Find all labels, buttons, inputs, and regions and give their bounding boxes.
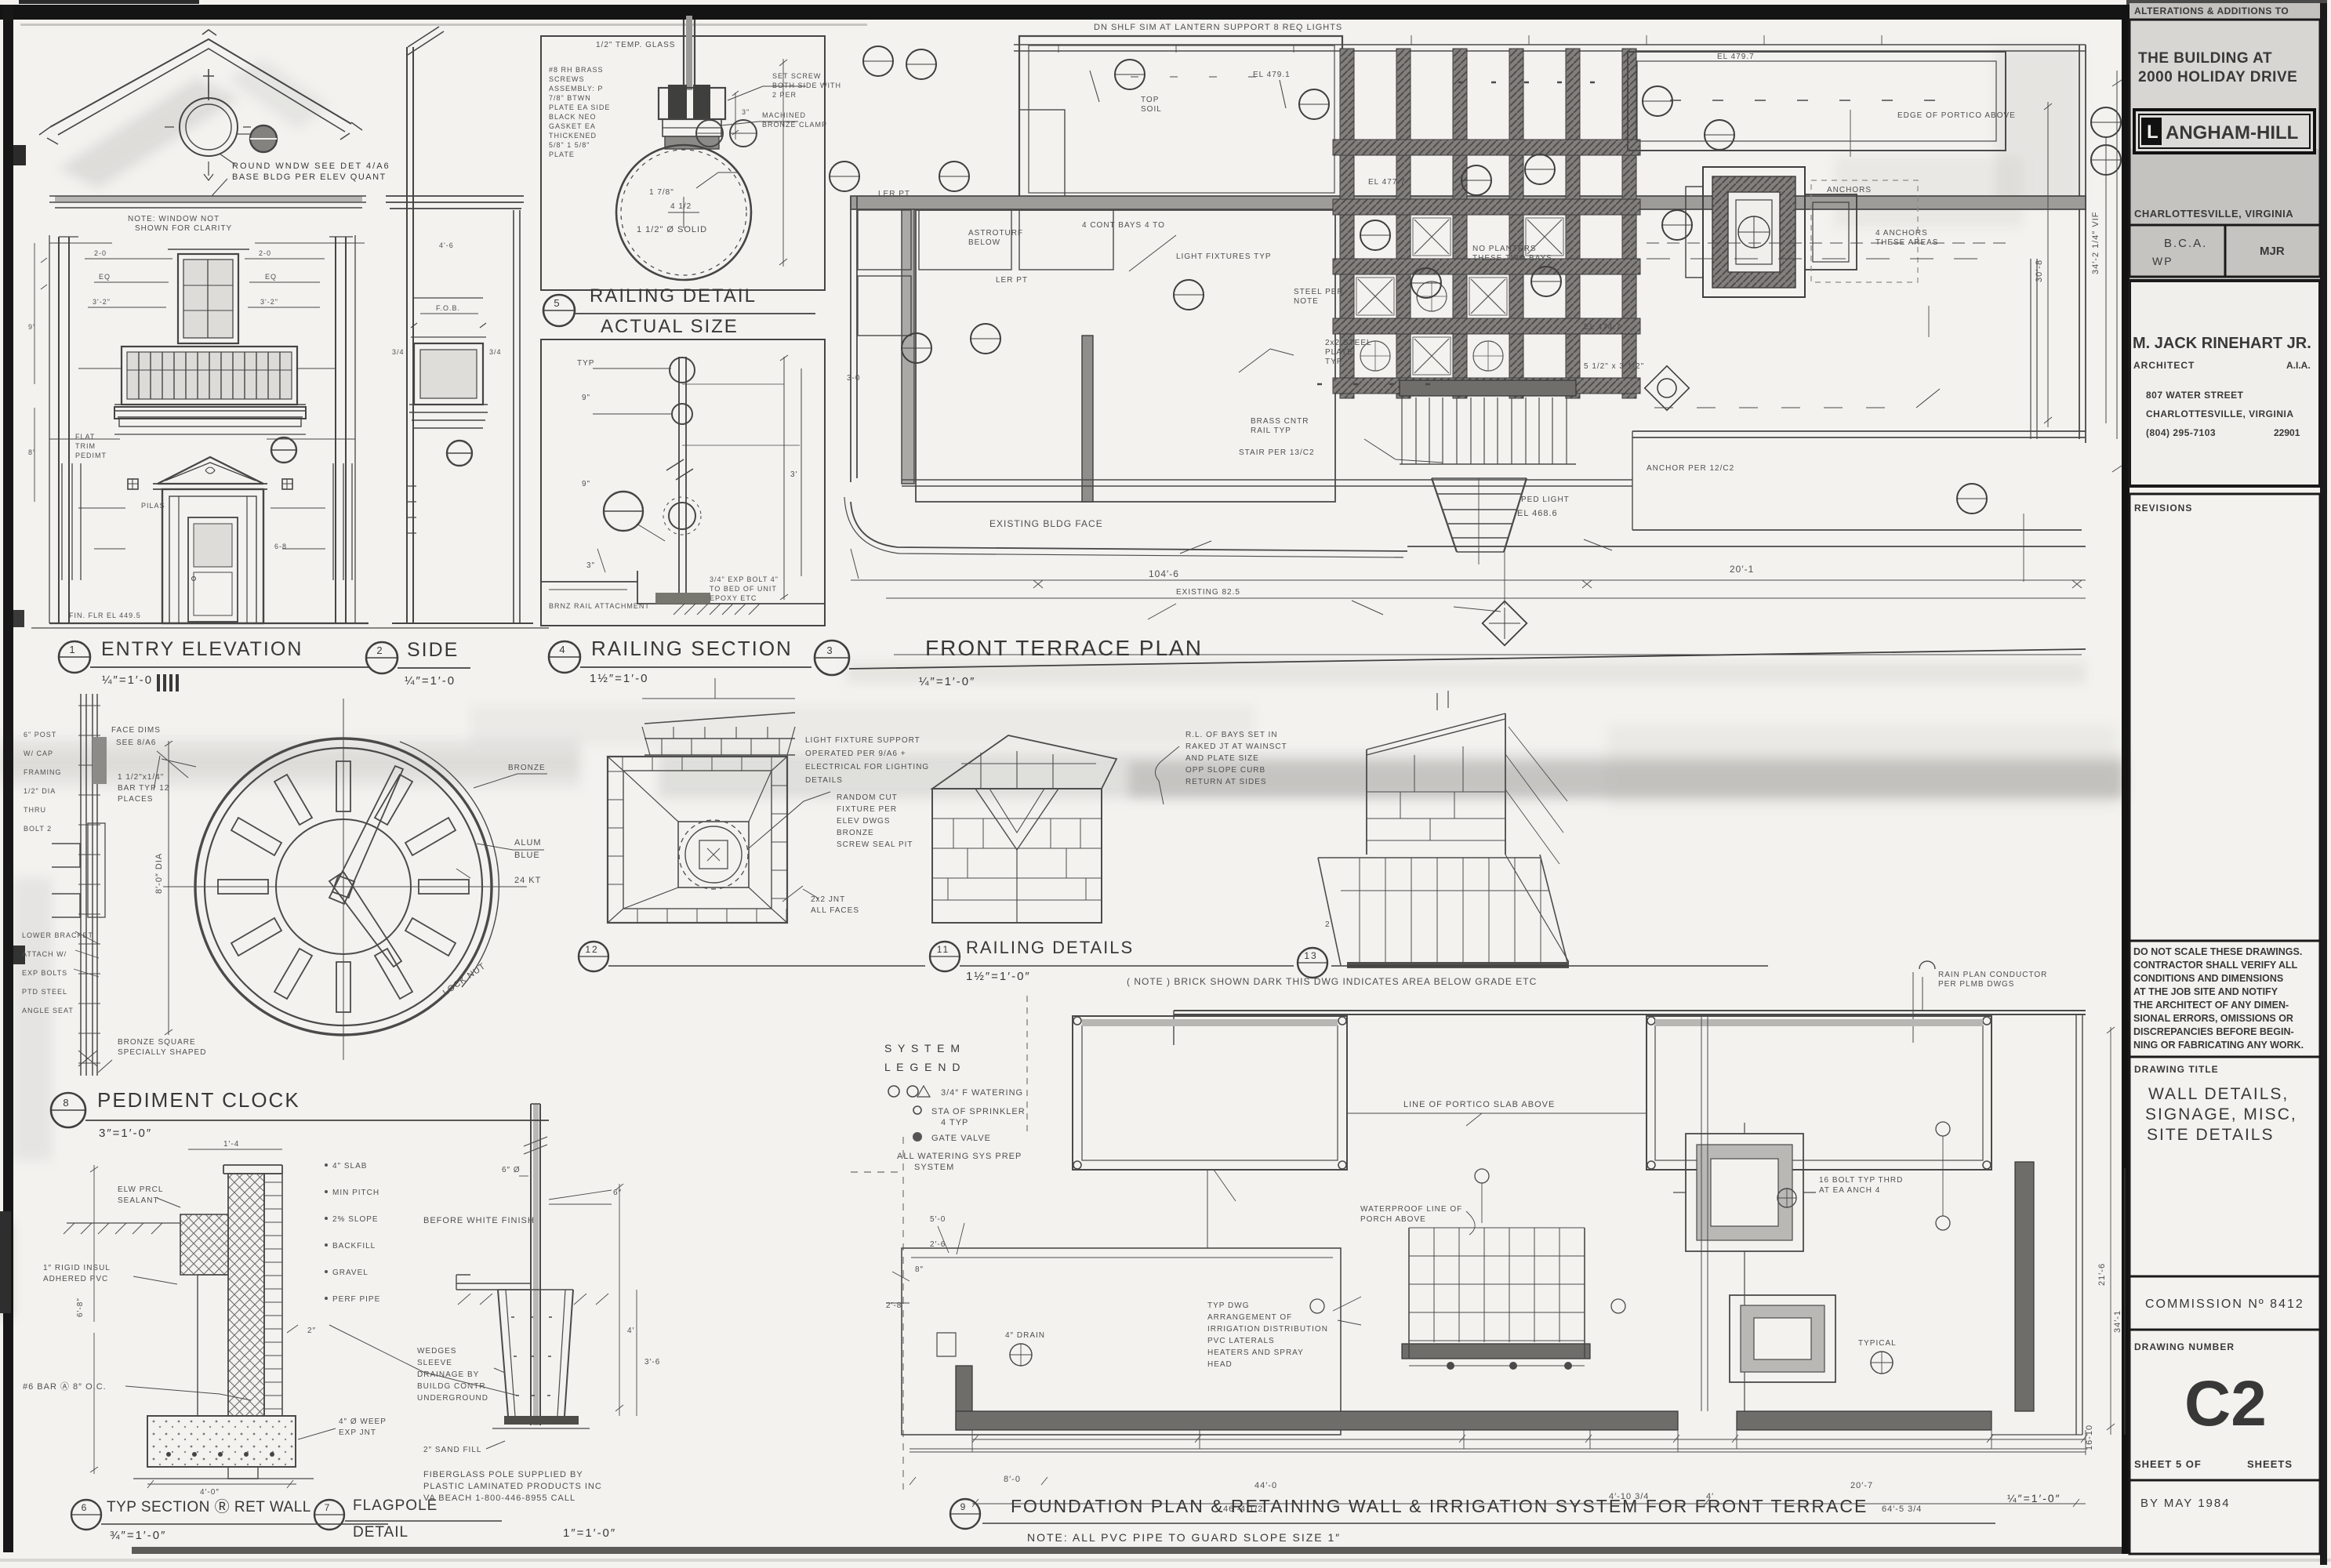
coffer cell details bbox=[1356, 218, 1563, 375]
svg-text:GRAVEL: GRAVEL bbox=[332, 1269, 369, 1277]
rounded SW corner bbox=[851, 502, 2086, 551]
svg-text:24 KT: 24 KT bbox=[514, 876, 541, 885]
svg-text:2″ SAND FILL: 2″ SAND FILL bbox=[423, 1446, 481, 1454]
wall hook left bbox=[937, 1333, 956, 1356]
svg-text:THESE TWO BAYS: THESE TWO BAYS bbox=[1472, 254, 1552, 263]
dark interior wall bbox=[1082, 336, 1093, 502]
project name cell bbox=[2129, 20, 2320, 225]
svg-text:CONTRACTOR SHALL VERIFY ALL: CONTRACTOR SHALL VERIFY ALL bbox=[2133, 960, 2298, 971]
svg-text:R.L. OF BAYS SET IN: R.L. OF BAYS SET IN bbox=[1185, 731, 1278, 739]
bottom right wall band bbox=[1632, 431, 2086, 530]
svg-text:EQ: EQ bbox=[99, 273, 111, 281]
svg-text:¾″=1′-0″: ¾″=1′-0″ bbox=[110, 1529, 166, 1542]
right side vertical dims of plan bbox=[2106, 71, 2117, 439]
svg-text:MACHINED: MACHINED bbox=[762, 111, 806, 119]
pylon footing lower bbox=[1730, 1295, 1835, 1382]
svg-text:BOTH SIDE WITH: BOTH SIDE WITH bbox=[772, 82, 841, 89]
top ball bbox=[670, 358, 695, 383]
pole break marks bbox=[524, 1137, 547, 1154]
fold shadow band left bbox=[0, 739, 580, 787]
lower ball bbox=[669, 503, 695, 529]
svg-text:DRAWING TITLE: DRAWING TITLE bbox=[2134, 1064, 2219, 1075]
top line ticks bbox=[1058, 35, 1882, 53]
svg-text:¼″=1′-0″: ¼″=1′-0″ bbox=[2007, 1492, 2061, 1504]
svg-text:WEDGES: WEDGES bbox=[417, 1347, 456, 1356]
svg-text:3′-6: 3′-6 bbox=[644, 1358, 660, 1367]
rail ball bbox=[616, 145, 751, 280]
svg-text:ASTROTURF: ASTROTURF bbox=[968, 229, 1023, 238]
svg-text:1½″=1′-0″: 1½″=1′-0″ bbox=[966, 970, 1031, 983]
svg-text:BLUE: BLUE bbox=[514, 851, 540, 860]
diamond marker bbox=[1645, 366, 1690, 411]
base plate bbox=[504, 1416, 579, 1425]
right pilaster bbox=[336, 237, 346, 623]
detail marker pair bbox=[696, 120, 723, 147]
svg-text:4″ Ø WEEP: 4″ Ø WEEP bbox=[339, 1417, 387, 1426]
svg-text:20′-7: 20′-7 bbox=[1850, 1481, 1873, 1490]
svg-text:FLAGPOLE: FLAGPOLE bbox=[353, 1497, 438, 1514]
svg-text:WALL DETAILS,: WALL DETAILS, bbox=[2148, 1085, 2289, 1103]
ret wall shaft hatched bbox=[228, 1174, 264, 1416]
svg-text:CHARLOTTESVILLE, VIRGINIA: CHARLOTTESVILLE, VIRGINIA bbox=[2134, 208, 2293, 220]
svg-text:1: 1 bbox=[69, 644, 76, 655]
date cell bbox=[2129, 1480, 2320, 1554]
sleeve interior dots bbox=[511, 1317, 552, 1396]
svg-text:NING OR FABRICATING ANY WORK.: NING OR FABRICATING ANY WORK. bbox=[2133, 1040, 2304, 1051]
left edge binder marks bbox=[13, 145, 26, 165]
svg-text:SIGNAGE, MISC,: SIGNAGE, MISC, bbox=[2145, 1105, 2297, 1123]
sprinkler symbols bbox=[1010, 1344, 1032, 1366]
svg-text:STA OF SPRINKLER: STA OF SPRINKLER bbox=[931, 1107, 1026, 1116]
plan detail circles bbox=[830, 46, 2121, 514]
svg-text:SLEEVE: SLEEVE bbox=[417, 1359, 452, 1367]
svg-text:CHARLOTTESVILLE, VIRGINIA: CHARLOTTESVILLE, VIRGINIA bbox=[2146, 408, 2294, 419]
facade extra lines bbox=[49, 242, 365, 244]
svg-text:LIGHT FIXTURE SUPPORT: LIGHT FIXTURE SUPPORT bbox=[805, 736, 920, 745]
right plan border bbox=[2076, 1014, 2082, 1435]
big left room bbox=[916, 210, 1335, 502]
svg-text:FLAT: FLAT bbox=[75, 433, 95, 441]
svg-text:EL 477.7: EL 477.7 bbox=[1368, 178, 1406, 187]
svg-text:BLACK NEO: BLACK NEO bbox=[549, 113, 597, 121]
svg-text:2000 HOLIDAY DRIVE: 2000 HOLIDAY DRIVE bbox=[2138, 69, 2297, 85]
svg-text:A.I.A.: A.I.A. bbox=[2286, 360, 2311, 371]
svg-text:PORCH ABOVE: PORCH ABOVE bbox=[1360, 1215, 1426, 1224]
svg-text:16-10: 16-10 bbox=[2085, 1425, 2094, 1450]
svg-text:44′-0: 44′-0 bbox=[1254, 1481, 1277, 1490]
svg-text:B.C.A.: B.C.A. bbox=[2164, 237, 2207, 250]
svg-text:SCREWS: SCREWS bbox=[549, 75, 585, 83]
svg-text:W/ CAP: W/ CAP bbox=[24, 750, 53, 757]
bottom curb bbox=[541, 571, 684, 604]
svg-text:GASKET EA: GASKET EA bbox=[549, 122, 596, 130]
svg-text:2x2 STEEL: 2x2 STEEL bbox=[1325, 339, 1372, 347]
svg-text:5: 5 bbox=[554, 297, 561, 309]
svg-text:9': 9' bbox=[28, 323, 35, 331]
left margin smudge bbox=[13, 878, 52, 1160]
sleeve collar bbox=[456, 1283, 532, 1290]
svg-text:PLATE: PLATE bbox=[549, 151, 575, 158]
svg-text:THICKENED: THICKENED bbox=[549, 132, 597, 140]
footing rebar dots bbox=[166, 1452, 171, 1457]
svg-text:PTD STEEL: PTD STEEL bbox=[22, 988, 67, 996]
svg-text:IRRIGATION DISTRIBUTION: IRRIGATION DISTRIBUTION bbox=[1207, 1325, 1328, 1334]
svg-text:EQ: EQ bbox=[265, 273, 277, 281]
svg-text:EL 479.1: EL 479.1 bbox=[1253, 71, 1291, 79]
svg-text:EXP BOLTS: EXP BOLTS bbox=[22, 969, 67, 977]
wall section strip bbox=[81, 694, 97, 1076]
svg-text:AT EA ANCH 4: AT EA ANCH 4 bbox=[1819, 1186, 1880, 1195]
lower dimension strings bbox=[851, 549, 2086, 580]
svg-text:64′-5 3/4: 64′-5 3/4 bbox=[1882, 1504, 1922, 1514]
planter 1 bbox=[1073, 1016, 1347, 1170]
architect cell bbox=[2129, 281, 2320, 486]
svg-text:ELECTRICAL FOR LIGHTING: ELECTRICAL FOR LIGHTING bbox=[805, 763, 929, 771]
right dim chain inside plan bbox=[2047, 102, 2049, 427]
svg-text:¼″=1′-0: ¼″=1′-0 bbox=[102, 673, 153, 687]
glass stem bbox=[684, 20, 695, 90]
baluster post bbox=[679, 357, 686, 604]
portico slab line bbox=[1347, 1112, 1647, 1114]
label row smear bbox=[847, 662, 2086, 683]
clock crosshairs bbox=[163, 886, 527, 887]
svg-text:2-0: 2-0 bbox=[259, 249, 271, 257]
svg-text:RETURN AT SIDES: RETURN AT SIDES bbox=[1185, 778, 1267, 786]
svg-text:THE BUILDING AT: THE BUILDING AT bbox=[2138, 50, 2272, 67]
svg-text:1 1/2"x1/4": 1 1/2"x1/4" bbox=[118, 773, 164, 782]
right mid faint wash bbox=[1607, 725, 2117, 808]
svg-text:2″: 2″ bbox=[307, 1327, 316, 1335]
fold shadow band right bbox=[659, 753, 2125, 798]
svg-text:4 1/2: 4 1/2 bbox=[670, 202, 692, 211]
svg-text:1′-4: 1′-4 bbox=[223, 1140, 239, 1149]
roof eave returns bbox=[39, 122, 362, 144]
svg-text:3/4: 3/4 bbox=[392, 348, 405, 356]
storefront band bbox=[122, 347, 297, 405]
base lines bbox=[49, 622, 369, 624]
svg-text:PLACES: PLACES bbox=[118, 795, 153, 804]
svg-text:1 1/2" Ø SOLID: 1 1/2" Ø SOLID bbox=[637, 225, 707, 234]
svg-text:ROUND WNDW SEE DET 4/A6: ROUND WNDW SEE DET 4/A6 bbox=[232, 162, 390, 171]
svg-text:EPOXY ETC: EPOXY ETC bbox=[710, 594, 757, 602]
svg-text:SITE DETAILS: SITE DETAILS bbox=[2147, 1126, 2274, 1144]
svg-text:6" POST: 6" POST bbox=[24, 731, 56, 739]
svg-text:ASSEMBLY: P: ASSEMBLY: P bbox=[549, 85, 603, 93]
roof diagonal smear bbox=[59, 78, 239, 188]
svg-text:BOLT 2: BOLT 2 bbox=[24, 825, 52, 833]
valve dots center bbox=[1447, 1362, 1454, 1370]
svg-text:PEDIMENT CLOCK: PEDIMENT CLOCK bbox=[97, 1088, 300, 1112]
clamp block bbox=[659, 88, 725, 119]
svg-text:4′-0″: 4′-0″ bbox=[200, 1488, 220, 1497]
svg-text:3/4" EXP BOLT 4": 3/4" EXP BOLT 4" bbox=[710, 575, 779, 583]
svg-text:SIONAL ERRORS, OMISSIONS OR: SIONAL ERRORS, OMISSIONS OR bbox=[2133, 1013, 2293, 1024]
svg-text:6: 6 bbox=[82, 1502, 89, 1513]
bottom dimension strings bbox=[910, 1448, 2086, 1450]
door frame bbox=[162, 489, 263, 623]
svg-text:1″ RIGID INSUL: 1″ RIGID INSUL bbox=[43, 1264, 111, 1272]
svg-text:BUILDG CONTR: BUILDG CONTR bbox=[417, 1382, 486, 1391]
svg-text:807 WATER STREET: 807 WATER STREET bbox=[2146, 390, 2244, 401]
LANGHAM-HILL logo bbox=[2134, 110, 2315, 153]
svg-text:LER PT: LER PT bbox=[996, 276, 1028, 285]
svg-text:THESE AREAS: THESE AREAS bbox=[1875, 238, 1938, 247]
svg-text:TYPICAL: TYPICAL bbox=[1858, 1339, 1897, 1348]
svg-text:8': 8' bbox=[28, 448, 35, 456]
streak near plan right edge bbox=[1995, 47, 2082, 204]
svg-text:MIN PITCH: MIN PITCH bbox=[332, 1189, 379, 1197]
svg-text:DISCREPANCIES BEFORE BEGIN-: DISCREPANCIES BEFORE BEGIN- bbox=[2133, 1026, 2294, 1037]
pylon ghost outline bbox=[1811, 180, 1918, 282]
svg-text:PED LIGHT: PED LIGHT bbox=[1521, 495, 1570, 504]
right retaining wall vertical bbox=[2015, 1162, 2034, 1411]
sill bands bbox=[114, 405, 306, 417]
eave fascia lines bbox=[55, 196, 362, 201]
svg-text:ARRANGEMENT OF: ARRANGEMENT OF bbox=[1207, 1313, 1292, 1322]
svg-text:TYP: TYP bbox=[1325, 358, 1342, 366]
svg-text:BAR TYP 12: BAR TYP 12 bbox=[118, 784, 169, 793]
svg-text:NOTE: ALL PVC PIPE TO GUA: NOTE: ALL PVC PIPE TO GUARD SLOPE SIZE 1… bbox=[1027, 1531, 1341, 1544]
svg-text:BRONZE: BRONZE bbox=[837, 829, 874, 837]
terrace plan outer top line bbox=[1014, 45, 2086, 51]
svg-text:S Y S T E M: S Y S T E M bbox=[884, 1042, 961, 1054]
svg-text:SHOWN FOR CLARITY: SHOWN FOR CLARITY bbox=[135, 224, 232, 233]
svg-text:OPERATED PER 9/A6 +: OPERATED PER 9/A6 + bbox=[805, 750, 906, 758]
svg-text:6″: 6″ bbox=[613, 1189, 622, 1197]
top dim small bbox=[188, 1149, 282, 1150]
left wall gray band bbox=[902, 209, 914, 484]
svg-text:20′-1: 20′-1 bbox=[1730, 564, 1754, 575]
svg-text:EL 468.6: EL 468.6 bbox=[1517, 509, 1558, 518]
svg-text:SHEETS: SHEETS bbox=[2247, 1458, 2293, 1470]
central stair grid bbox=[1408, 1228, 1410, 1342]
svg-text:HEAD: HEAD bbox=[1207, 1360, 1233, 1369]
svg-text:COMMISSION Nº 8412: COMMISSION Nº 8412 bbox=[2145, 1298, 2304, 1311]
svg-text:2 PER: 2 PER bbox=[772, 91, 797, 99]
side roof edge bbox=[408, 27, 444, 55]
planter tick dashes bbox=[1670, 100, 1935, 101]
svg-text:1½″=1′-0: 1½″=1′-0 bbox=[590, 672, 648, 685]
svg-text:¼″=1′-0: ¼″=1′-0 bbox=[405, 674, 456, 688]
initials cells bbox=[2129, 225, 2320, 277]
ret wall cap bbox=[223, 1165, 282, 1174]
svg-text:TRIM: TRIM bbox=[75, 442, 96, 450]
svg-text:104′-6: 104′-6 bbox=[1149, 568, 1179, 579]
svg-text:5′-0: 5′-0 bbox=[930, 1215, 946, 1224]
round window bbox=[180, 98, 238, 156]
left margin dims bbox=[34, 243, 35, 502]
svg-text:RANDOM CUT: RANDOM CUT bbox=[837, 793, 898, 802]
right annotations bbox=[474, 774, 547, 788]
svg-text:EDGE OF PORTICO ABOVE: EDGE OF PORTICO ABOVE bbox=[1897, 111, 2016, 120]
svg-text:TYP DWG: TYP DWG bbox=[1207, 1301, 1249, 1310]
svg-text:1″=1′-0″: 1″=1′-0″ bbox=[563, 1526, 616, 1540]
svg-text:RAIL TYP: RAIL TYP bbox=[1251, 426, 1291, 435]
cornice shelf bbox=[114, 407, 306, 419]
svg-text:ARCHITECT: ARCHITECT bbox=[2133, 360, 2195, 371]
svg-text:NO PLANTERS: NO PLANTERS bbox=[1472, 245, 1537, 253]
svg-text:REVISIONS: REVISIONS bbox=[2134, 503, 2192, 514]
diamond below bbox=[1483, 601, 1527, 646]
svg-text:BY MAY 1984: BY MAY 1984 bbox=[2140, 1497, 2231, 1510]
pylon B cap bbox=[932, 735, 1116, 789]
svg-text:ENTRY ELEVATION: ENTRY ELEVATION bbox=[101, 638, 303, 660]
room inner bottom band bbox=[902, 480, 1632, 486]
svg-text:RAILING DETAILS: RAILING DETAILS bbox=[966, 938, 1134, 957]
svg-text:SPECIALLY SHAPED: SPECIALLY SHAPED bbox=[118, 1048, 206, 1057]
svg-text:BRONZE SQUARE: BRONZE SQUARE bbox=[118, 1038, 196, 1047]
svg-text:BRONZE CLAMP: BRONZE CLAMP bbox=[762, 121, 827, 129]
svg-text:30′-8: 30′-8 bbox=[2035, 260, 2044, 282]
svg-text:4: 4 bbox=[559, 644, 566, 655]
svg-text:34′-2 1/4″ VIF: 34′-2 1/4″ VIF bbox=[2091, 212, 2100, 275]
svg-text:HEATERS AND SPRAY: HEATERS AND SPRAY bbox=[1207, 1348, 1304, 1357]
drawing title cell bbox=[2129, 1057, 2320, 1276]
svg-text:CONDITIONS AND DIMENSIONS: CONDITIONS AND DIMENSIONS bbox=[2133, 973, 2283, 984]
svg-text:ATTACH W/: ATTACH W/ bbox=[22, 950, 67, 958]
svg-text:RAILING DETAIL: RAILING DETAIL bbox=[590, 285, 757, 307]
svg-text:DO NOT SCALE THESE DRAWINGS.: DO NOT SCALE THESE DRAWINGS. bbox=[2133, 946, 2302, 957]
svg-text:THRU: THRU bbox=[24, 806, 46, 814]
svg-text:PEDIMT: PEDIMT bbox=[75, 452, 107, 459]
svg-text:SYSTEM: SYSTEM bbox=[914, 1163, 954, 1172]
left pilaster bbox=[59, 237, 69, 623]
svg-text:8′-0″ DIA: 8′-0″ DIA bbox=[154, 853, 164, 894]
scan black left bar bbox=[3, 5, 13, 1552]
side window dims bbox=[420, 313, 478, 314]
flag pole shaft bbox=[531, 1104, 540, 1425]
pylon A plan square bbox=[608, 757, 787, 923]
svg-text:3/4: 3/4 bbox=[489, 348, 502, 356]
extra dim rows under band bbox=[972, 1439, 2086, 1440]
entry gable roof bbox=[50, 39, 351, 127]
svg-text:7: 7 bbox=[325, 1502, 332, 1513]
svg-text:L: L bbox=[2147, 122, 2159, 143]
svg-text:5/8" 1 5/8": 5/8" 1 5/8" bbox=[549, 141, 590, 149]
svg-text:VA BEACH 1-800-446-8955 CAL: VA BEACH 1-800-446-8955 CALL bbox=[423, 1494, 575, 1503]
detail marker 5 bbox=[271, 437, 296, 463]
label entry elevation bbox=[59, 641, 90, 673]
label railing detail actual size bbox=[543, 295, 575, 326]
right zone dashes bbox=[1647, 242, 2007, 244]
svg-text:ANCHORS: ANCHORS bbox=[1827, 186, 1872, 194]
svg-text:BELOW: BELOW bbox=[968, 238, 1000, 247]
svg-text:AT THE JOB SITE AND NOTIFY: AT THE JOB SITE AND NOTIFY bbox=[2133, 986, 2278, 997]
svg-text:PVC LATERALS: PVC LATERALS bbox=[1207, 1337, 1275, 1345]
svg-text:RAILING SECTION: RAILING SECTION bbox=[591, 637, 793, 660]
break squiggle bbox=[666, 459, 693, 480]
rain leader circle bbox=[1919, 961, 1935, 969]
right leader notes bbox=[728, 86, 806, 100]
clock hands bbox=[329, 766, 403, 967]
detail marker 6 bbox=[250, 125, 277, 152]
bottom left corner marks bbox=[0, 1223, 11, 1317]
svg-text:ELEV DWGS: ELEV DWGS bbox=[837, 817, 890, 826]
svg-text:NOTE: WINDOW NOT: NOTE: WINDOW NOT bbox=[128, 215, 220, 223]
center riser lines bbox=[1701, 1014, 1708, 1411]
svg-text:(804) 295-7103: (804) 295-7103 bbox=[2146, 427, 2216, 438]
svg-text:OPP SLOPE CURB: OPP SLOPE CURB bbox=[1185, 766, 1265, 775]
ground hatch bbox=[458, 1294, 608, 1305]
svg-text:22901: 22901 bbox=[2274, 427, 2300, 438]
svg-text:2: 2 bbox=[376, 644, 383, 656]
svg-text:L E G E N D: L E G E N D bbox=[884, 1061, 962, 1073]
side wall verticals bbox=[407, 47, 413, 623]
svg-text:LER PT: LER PT bbox=[878, 190, 910, 198]
svg-text:M. JACK RINEHART JR.: M. JACK RINEHART JR. bbox=[2133, 335, 2311, 352]
svg-text:ANGHAM-HILL: ANGHAM-HILL bbox=[2166, 122, 2298, 143]
svg-text:RAKED JT AT WAINSCT: RAKED JT AT WAINSCT bbox=[1185, 742, 1287, 751]
squiggle leaders in open room bbox=[1239, 349, 1294, 372]
svg-text:ACTUAL SIZE: ACTUAL SIZE bbox=[601, 316, 739, 337]
svg-text:3'-2": 3'-2" bbox=[260, 298, 278, 306]
svg-text:BACKFILL: BACKFILL bbox=[332, 1242, 376, 1250]
svg-text:¼″=1′-0″: ¼″=1′-0″ bbox=[919, 675, 975, 688]
pediment finial mark bbox=[205, 467, 215, 474]
lower flank pilasters bbox=[62, 463, 81, 580]
terrace right border bbox=[2079, 45, 2086, 443]
svg-text:2-0: 2-0 bbox=[94, 249, 107, 257]
svg-text:DN SHLF SIM AT LANTERN SUPPO: DN SHLF SIM AT LANTERN SUPPORT 8 REQ LIG… bbox=[1094, 23, 1342, 32]
svg-text:TO BED OF UNIT: TO BED OF UNIT bbox=[710, 585, 777, 593]
railing section box bbox=[541, 339, 825, 626]
svg-text:5 1/2" x 3 1/2": 5 1/2" x 3 1/2" bbox=[1584, 362, 1644, 371]
svg-text:PLATE EA SIDE: PLATE EA SIDE bbox=[549, 103, 610, 111]
svg-text:SHEET 5 OF: SHEET 5 OF bbox=[2134, 1458, 2202, 1470]
svg-text:MJR: MJR bbox=[2260, 245, 2285, 258]
grade line left bbox=[67, 1222, 180, 1224]
svg-text:TYP SECTION Ⓡ RET WALL: TYP SECTION Ⓡ RET WALL bbox=[107, 1498, 311, 1515]
svg-text:11: 11 bbox=[937, 944, 949, 955]
pylon C right slant hatch bbox=[1505, 727, 1567, 864]
svg-text:BRNZ RAIL ATTACHMENT: BRNZ RAIL ATTACHMENT bbox=[549, 602, 650, 610]
svg-text:8′-0: 8′-0 bbox=[1004, 1475, 1021, 1484]
commission cell bbox=[2129, 1276, 2320, 1330]
clamp dim bbox=[735, 93, 736, 140]
dim right vertical bbox=[784, 357, 801, 600]
svg-text:C2: C2 bbox=[2184, 1368, 2267, 1439]
svg-text:4″ DRAIN: 4″ DRAIN bbox=[1005, 1331, 1045, 1340]
svg-text:SEE 8/A6: SEE 8/A6 bbox=[116, 739, 156, 747]
svg-text:LINE OF PORTICO SLAB ABOVE: LINE OF PORTICO SLAB ABOVE bbox=[1403, 1100, 1555, 1109]
flanking square marks bbox=[128, 479, 138, 489]
svg-text:DETAILS: DETAILS bbox=[805, 776, 843, 785]
side base bbox=[392, 622, 533, 624]
planter 2 bbox=[1647, 1016, 1992, 1170]
gray line under top bar bbox=[20, 24, 867, 26]
pylon C lower trapezoid bbox=[1318, 855, 1567, 965]
svg-text:ALUM: ALUM bbox=[514, 838, 542, 848]
svg-text:TOP: TOP bbox=[1141, 96, 1159, 104]
label railing details row bbox=[579, 942, 608, 971]
svg-text:9: 9 bbox=[960, 1501, 968, 1512]
svg-text:SET SCREW: SET SCREW bbox=[772, 72, 821, 80]
upper left planter bbox=[1019, 36, 1342, 201]
svg-text:FRONT TERRACE PLAN: FRONT TERRACE PLAN bbox=[925, 636, 1203, 660]
svg-text:3″=1′-0″: 3″=1′-0″ bbox=[99, 1127, 152, 1140]
svg-text:BRONZE: BRONZE bbox=[508, 764, 546, 772]
svg-text:FRAMING: FRAMING bbox=[24, 768, 62, 776]
svg-text:4′: 4′ bbox=[627, 1327, 634, 1335]
svg-text:12: 12 bbox=[585, 944, 598, 955]
svg-text:FIBERGLASS POLE SUPPLIED BY: FIBERGLASS POLE SUPPLIED BY bbox=[423, 1470, 583, 1479]
side cornice bbox=[386, 196, 524, 209]
svg-text:DETAIL: DETAIL bbox=[353, 1524, 408, 1541]
left room outline bbox=[902, 1248, 1341, 1435]
upper right planter bbox=[1628, 52, 2006, 151]
label front terrace plan bbox=[815, 641, 849, 675]
label side bbox=[366, 642, 398, 673]
